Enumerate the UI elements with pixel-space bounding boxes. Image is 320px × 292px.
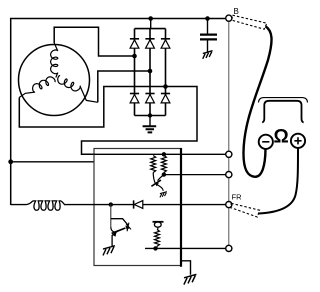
resistor R2 <box>161 156 166 173</box>
inductor field coil <box>26 201 65 210</box>
wire right vertical <box>228 21 230 248</box>
node phase V junction <box>148 69 153 74</box>
stator circle <box>19 45 90 116</box>
ground capacitor <box>203 51 213 59</box>
node resistor top <box>162 152 166 156</box>
wire bridge column 3 <box>165 29 167 116</box>
terminal FR <box>226 202 232 208</box>
ground Q2 <box>103 246 115 256</box>
wire bridge bottom bus <box>135 115 166 117</box>
ground bridge <box>143 126 157 132</box>
ground Q1 <box>160 192 167 198</box>
transistor Q2 <box>110 205 112 227</box>
wire regulator ground <box>181 248 191 274</box>
regulator box <box>94 149 181 266</box>
wire bridge ground stem <box>149 115 151 126</box>
terminal minus <box>259 135 273 149</box>
capacitor C1 <box>200 35 217 40</box>
svg-text:FR: FR <box>232 193 243 202</box>
wire to regulator left <box>11 161 94 163</box>
node R2 bottom <box>162 172 166 176</box>
stator winding top <box>51 43 58 78</box>
terminal S <box>226 151 232 157</box>
stator winding left <box>19 77 55 98</box>
wire bridge feed <box>150 19 152 29</box>
wire bridge column 1 <box>134 29 136 116</box>
wire phase W <box>19 87 197 155</box>
wire phase V <box>98 71 148 102</box>
wire divider top <box>94 153 226 155</box>
wire E terminal <box>145 247 226 249</box>
svg-text:Ω: Ω <box>274 127 289 148</box>
resistor R3 <box>155 230 160 247</box>
probe B <box>232 15 267 29</box>
wire to F terminal <box>164 174 226 176</box>
wire phase U <box>54 27 133 56</box>
terminal plus <box>291 134 305 148</box>
probe FR <box>231 203 260 217</box>
terminal F? (IG) <box>226 172 232 178</box>
diode lower D6 <box>161 93 170 95</box>
cable plus to FR <box>259 148 299 214</box>
resistor R1 <box>151 156 156 173</box>
svg-text:B: B <box>234 7 239 16</box>
node left tap <box>8 159 13 164</box>
terminal B <box>226 15 232 21</box>
ground regulator <box>184 274 197 284</box>
regulator box right border <box>180 148 182 267</box>
wire R3 bottom <box>156 246 158 248</box>
wire R2 bottom <box>163 173 165 175</box>
diode upper D1 <box>130 38 139 40</box>
wire field FR <box>11 204 226 206</box>
wire bridge column 2 <box>149 29 151 116</box>
wire bridge top bus <box>135 28 166 30</box>
node bridge feed <box>148 16 153 21</box>
wire top rail B+ <box>11 19 226 206</box>
zener ZD1 <box>153 221 164 223</box>
cable B to minus <box>243 26 271 177</box>
diode lower D4 <box>130 93 139 95</box>
node phase W junction <box>163 84 168 89</box>
diode lower D5 <box>145 93 154 95</box>
transistor Q1 <box>153 173 155 184</box>
terminal E <box>226 245 232 251</box>
node R3 bottom <box>153 246 157 250</box>
node phase U junction <box>132 54 137 59</box>
ohmmeter body <box>262 101 303 123</box>
diode upper D2 <box>145 38 154 40</box>
node capacitor tap <box>205 16 210 21</box>
node Q2 tap <box>109 202 113 206</box>
diode D7 flyback <box>133 200 135 208</box>
diode upper D3 <box>161 38 170 40</box>
ohmmeter outer top <box>259 98 308 103</box>
wire capacitor stem <box>207 19 209 52</box>
node bridge bottom center <box>148 113 152 117</box>
stator winding right <box>58 76 98 103</box>
